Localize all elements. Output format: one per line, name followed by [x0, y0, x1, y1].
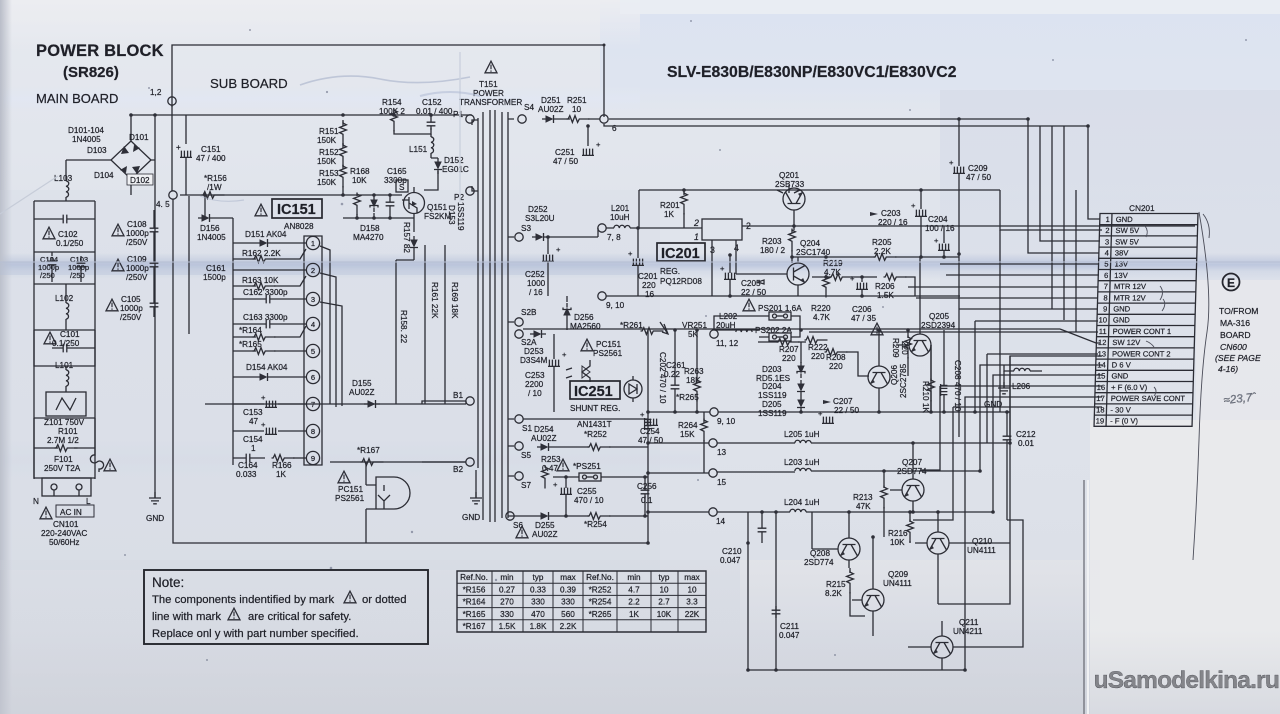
svg-text:+: + — [628, 249, 633, 258]
capacitor C164 — [233, 454, 265, 479]
svg-text:PC151: PC151 — [596, 340, 621, 349]
svg-text:1000: 1000 — [527, 279, 546, 288]
resistor R222 — [805, 337, 829, 361]
svg-text:/1W: /1W — [207, 183, 222, 192]
pin 17 POWER SAVE CONT — [1096, 394, 1185, 403]
resistor R208 — [825, 349, 870, 376]
svg-text:R213: R213 — [853, 493, 873, 502]
svg-text:PQ12RD08: PQ12RD08 — [660, 277, 702, 286]
svg-text:D254: D254 — [534, 425, 554, 434]
svg-text:150K: 150K — [317, 178, 337, 187]
svg-text:C252: C252 — [525, 270, 545, 279]
svg-text:C161: C161 — [206, 264, 226, 273]
svg-text:1SS119: 1SS119 — [758, 391, 787, 400]
label AC IN CN101 — [40, 505, 94, 547]
svg-text:47 / 50: 47 / 50 — [966, 173, 991, 182]
svg-text:D102: D102 — [130, 176, 150, 185]
diode D252 — [525, 205, 598, 241]
svg-text:C211: C211 — [780, 622, 799, 631]
svg-text:SW 12V: SW 12V — [1112, 338, 1141, 347]
svg-text:C105: C105 — [121, 295, 141, 304]
capacitor C165 — [384, 167, 407, 218]
svg-text:0.47: 0.47 — [542, 464, 558, 473]
svg-text:(SEE PAGE: (SEE PAGE — [1215, 353, 1261, 363]
svg-text:POWER CONT 2: POWER CONT 2 — [1112, 349, 1171, 358]
svg-text:The components indentified by: The components indentified by mark — [152, 594, 334, 606]
pen mark row2 — [1145, 226, 1147, 237]
svg-text:N: N — [33, 497, 39, 506]
svg-text:L201: L201 — [611, 204, 630, 213]
svg-text:13: 13 — [717, 448, 727, 457]
capacitor C154 — [233, 420, 306, 453]
svg-text:C212: C212 — [1016, 430, 1036, 439]
wire rail 6b — [604, 124, 1088, 126]
inductor L101 — [55, 361, 74, 392]
node 6 — [600, 115, 608, 123]
wire bottom rail primary — [173, 199, 648, 543]
inductor L201 — [598, 204, 702, 237]
svg-text:D255: D255 — [535, 521, 555, 530]
svg-text:GND: GND — [462, 513, 480, 522]
svg-text:0.27: 0.27 — [499, 585, 515, 594]
svg-text:0.39: 0.39 — [560, 585, 576, 594]
svg-text:/250V: /250V — [126, 273, 148, 282]
svg-text:typ: typ — [533, 573, 544, 582]
zener D158 — [353, 195, 384, 242]
pin 9 GND — [1103, 305, 1131, 314]
pin 9 — [306, 451, 319, 464]
svg-text:50/60Hz: 50/60Hz — [49, 538, 80, 547]
svg-text:1.5K: 1.5K — [499, 622, 516, 631]
svg-text:(SR826): (SR826) — [63, 64, 119, 81]
svg-text:typ: typ — [659, 573, 670, 582]
label D102 — [127, 174, 153, 185]
svg-text:max: max — [684, 573, 699, 582]
node 4,5 — [169, 191, 177, 199]
ground L206 — [984, 371, 1010, 409]
pin 6 13V — [1104, 271, 1129, 280]
svg-text:C204: C204 — [928, 215, 948, 224]
svg-text:D158: D158 — [360, 224, 380, 233]
IC201 label — [657, 243, 705, 286]
svg-text:11: 11 — [1099, 327, 1107, 336]
svg-text:C209: C209 — [968, 164, 988, 173]
resistor R165 — [233, 340, 306, 354]
capacitor C261 — [664, 330, 686, 412]
wire R158 column — [396, 260, 414, 404]
svg-text:R207: R207 — [779, 345, 799, 354]
svg-text:Q210: Q210 — [972, 537, 992, 546]
svg-text:1N4005: 1N4005 — [72, 135, 101, 144]
resistor R216 — [888, 512, 913, 547]
svg-text:0.33: 0.33 — [530, 585, 546, 594]
wire IC151 input box — [189, 196, 233, 465]
crease diagonal top left — [0, 176, 58, 214]
resistor R206 — [875, 274, 915, 300]
svg-text:+: + — [553, 480, 558, 489]
svg-text:C151: C151 — [201, 145, 221, 154]
wire Q210 outputs — [938, 356, 1010, 604]
svg-text:330: 330 — [561, 598, 575, 607]
svg-text:AC IN: AC IN — [60, 508, 82, 517]
svg-text:POWER BLOCK: POWER BLOCK — [36, 42, 164, 60]
svg-text:1000p: 1000p — [126, 229, 149, 238]
svg-text:0.01 / 400: 0.01 / 400 — [416, 107, 453, 116]
capacitor C109 — [112, 246, 158, 295]
svg-text:SW 5V: SW 5V — [1115, 237, 1140, 246]
wire rail 6 to right — [609, 118, 1028, 120]
svg-text:1: 1 — [1105, 215, 1109, 224]
svg-text:GND: GND — [1116, 215, 1134, 224]
capacitor C151 — [176, 115, 226, 195]
svg-text:4.7K: 4.7K — [813, 313, 830, 322]
terminal P1 — [466, 115, 474, 123]
svg-text:1,2: 1,2 — [150, 88, 162, 97]
svg-text:C109: C109 — [127, 255, 147, 264]
svg-text:13V: 13V — [1114, 260, 1129, 269]
svg-text:D151 AK04: D151 AK04 — [245, 230, 287, 239]
svg-text:/250: /250 — [40, 271, 55, 280]
svg-text:MA4270: MA4270 — [353, 233, 384, 242]
resistor R264 — [678, 412, 707, 473]
terminal S3 — [515, 233, 523, 241]
capacitor C202 — [645, 352, 667, 430]
terminal S7 — [515, 472, 523, 480]
svg-text:*R252: *R252 — [584, 430, 607, 439]
label D153 1SS119 — [410, 202, 465, 260]
wire row13 feed — [987, 354, 1098, 443]
svg-text:R168: R168 — [350, 167, 370, 176]
pin 8 MTR 12V — [1103, 293, 1146, 302]
capacitor C101 — [34, 330, 95, 366]
svg-text:C154: C154 — [243, 435, 263, 444]
capacitor C204 — [925, 215, 955, 257]
svg-text:/250V: /250V — [120, 313, 142, 322]
svg-text:4. 5: 4. 5 — [156, 200, 170, 209]
capacitor C161 — [203, 264, 226, 282]
svg-text:20uH: 20uH — [716, 321, 736, 330]
wire reg output — [742, 225, 1195, 227]
transistor Q208 — [804, 512, 860, 568]
node 1,2 — [168, 97, 176, 105]
svg-text:470: 470 — [531, 610, 545, 619]
resistor R207 — [758, 339, 806, 363]
capacitor C105 — [106, 295, 158, 322]
svg-text:S7: S7 — [521, 481, 531, 490]
svg-text:C254: C254 — [640, 427, 660, 436]
svg-text:11, 12: 11, 12 — [716, 339, 739, 348]
svg-text:AN8028: AN8028 — [284, 222, 314, 231]
svg-text:0.1/250: 0.1/250 — [56, 239, 84, 248]
transistor Q207 — [890, 443, 927, 512]
wire bundle v1 — [1051, 126, 1053, 309]
svg-text:C205: C205 — [741, 279, 761, 288]
pin 11 POWER CONT 1 — [1099, 327, 1172, 336]
crease fold bottom right — [1083, 480, 1085, 714]
svg-text:10K: 10K — [890, 538, 905, 547]
svg-text:C255: C255 — [577, 487, 597, 496]
svg-text:IC251: IC251 — [574, 384, 613, 400]
svg-text:AU02Z: AU02Z — [538, 105, 563, 114]
svg-text:D253: D253 — [524, 347, 544, 356]
diode D253 — [520, 330, 547, 365]
pin 16 + F (6.0 V) — [1097, 383, 1148, 392]
zener D256 — [563, 296, 601, 331]
svg-text:0.1/250: 0.1/250 — [52, 339, 80, 348]
svg-text:9: 9 — [1103, 305, 1107, 314]
svg-text:220-240VAC: 220-240VAC — [41, 529, 87, 538]
svg-text:- 30 V: - 30 V — [1110, 405, 1131, 414]
svg-text:R201: R201 — [660, 201, 680, 210]
optocoupler PC151 diode side — [566, 339, 623, 382]
svg-text:R215: R215 — [826, 580, 846, 589]
svg-text:0.1: 0.1 — [641, 496, 653, 505]
svg-text:0.047: 0.047 — [779, 631, 800, 640]
wire row6 feed — [946, 274, 1099, 276]
svg-text:*PS251: *PS251 — [573, 462, 601, 471]
svg-text:17: 17 — [1096, 394, 1105, 403]
wire row7 feed — [908, 286, 1098, 288]
resistor R201 — [660, 190, 687, 228]
pin 2 — [306, 263, 319, 276]
svg-text:D203: D203 — [762, 365, 782, 374]
svg-text:2: 2 — [1105, 226, 1109, 235]
svg-text:C207: C207 — [833, 397, 853, 406]
svg-text:4-16): 4-16) — [1218, 364, 1238, 374]
pin 4 — [306, 317, 319, 330]
svg-text:SLV-E830B/E830NP/E830VC1/E830V: SLV-E830B/E830NP/E830VC1/E830VC2 — [667, 64, 957, 81]
svg-text:6: 6 — [311, 373, 315, 382]
pin 2 SW 5V — [1105, 226, 1140, 235]
svg-text:*R261: *R261 — [620, 321, 643, 330]
label E circle — [1223, 274, 1240, 291]
wire filter ladder frame — [34, 201, 95, 479]
svg-text:GND: GND — [1113, 305, 1131, 314]
svg-text:POWER: POWER — [473, 89, 504, 98]
fold curve short — [1203, 214, 1209, 238]
wire sub rail down — [204, 195, 206, 218]
svg-text:S2B: S2B — [521, 308, 537, 317]
svg-text:CN101: CN101 — [53, 520, 79, 529]
svg-text:D 6 V: D 6 V — [1112, 361, 1132, 370]
wire row11 feed — [809, 331, 1098, 333]
svg-text:1: 1 — [251, 444, 256, 453]
capacitor C211 — [772, 606, 800, 640]
optocoupler PC151 phot — [335, 462, 410, 543]
terminal S6 — [506, 512, 514, 520]
wire D155 row — [205, 403, 466, 405]
svg-text:13V: 13V — [1114, 271, 1129, 280]
wire S1 row — [523, 418, 648, 420]
svg-text:B2: B2 — [453, 465, 463, 474]
svg-text:POWER CONT 1: POWER CONT 1 — [1113, 327, 1172, 336]
capacitor C103 — [34, 255, 95, 284]
resistor R210 — [921, 345, 934, 413]
svg-text:38V: 38V — [1115, 249, 1130, 258]
svg-text:TRANSFORMER: TRANSFORMER — [459, 98, 522, 107]
svg-text:1K: 1K — [629, 610, 640, 619]
resistor R166 — [272, 455, 307, 479]
svg-text:180 / 2: 180 / 2 — [760, 246, 785, 255]
wire bottom rail — [748, 669, 965, 671]
wire right bundle box — [993, 375, 1102, 512]
svg-text:D154 AK04: D154 AK04 — [246, 363, 288, 372]
svg-text:2: 2 — [693, 218, 699, 228]
wire vertical x748 — [747, 512, 749, 670]
svg-text:SUB BOARD: SUB BOARD — [210, 76, 288, 91]
svg-text:4: 4 — [311, 320, 315, 329]
pencil smudge 2 — [200, 196, 244, 201]
svg-text:P2: P2 — [454, 193, 464, 202]
svg-text:R206: R206 — [875, 282, 895, 291]
svg-text:SW 5V: SW 5V — [1115, 226, 1140, 235]
svg-text:6: 6 — [1104, 271, 1108, 280]
svg-text:0.01: 0.01 — [1018, 439, 1034, 448]
node 14 — [709, 508, 717, 516]
svg-text:R210 1K: R210 1K — [921, 381, 930, 413]
diode D156 — [197, 214, 233, 242]
svg-text:line with mark: line with mark — [152, 611, 221, 623]
svg-text:Q209: Q209 — [888, 570, 908, 579]
svg-text:Q151: Q151 — [427, 203, 447, 212]
svg-text:12: 12 — [1098, 338, 1107, 347]
wire pin2 row — [233, 269, 306, 271]
svg-text:/250: /250 — [70, 271, 85, 280]
svg-text:C251: C251 — [555, 148, 575, 157]
svg-text:+: + — [562, 350, 567, 359]
resistor R261 — [620, 321, 664, 334]
pen mark row7 — [1160, 286, 1163, 300]
svg-text:SHUNT REG.: SHUNT REG. — [570, 404, 620, 413]
svg-text:AU02Z: AU02Z — [531, 434, 556, 443]
svg-text:L151: L151 — [409, 145, 428, 154]
svg-text:D156: D156 — [200, 224, 220, 233]
svg-text:10K: 10K — [657, 610, 672, 619]
svg-text:R101: R101 — [58, 427, 78, 436]
transistor Q204 — [736, 239, 831, 296]
svg-text:0.22: 0.22 — [664, 370, 680, 379]
svg-text:2SD774: 2SD774 — [897, 467, 927, 476]
svg-text:3.3: 3.3 — [686, 598, 698, 607]
svg-text:1000p: 1000p — [126, 264, 149, 273]
svg-text:*R156: *R156 — [463, 585, 486, 594]
node 9,10 — [598, 292, 606, 300]
wire L205 to row14 — [1010, 356, 1102, 443]
svg-text:R157 82: R157 82 — [402, 222, 411, 253]
node 15 — [709, 469, 717, 477]
wire Q201 top rail — [639, 190, 1102, 230]
note box — [144, 570, 428, 644]
svg-text:L203 1uH: L203 1uH — [784, 458, 820, 467]
pen mark row8 — [1162, 299, 1165, 311]
svg-text:/ 10: / 10 — [528, 389, 542, 398]
resistor R153 — [317, 165, 346, 196]
svg-text:1: 1 — [311, 239, 315, 248]
wire sub-board top box — [172, 45, 604, 117]
wire row8 feed — [916, 297, 1098, 299]
svg-text:47 / 50: 47 / 50 — [553, 157, 578, 166]
wire bundle v2 — [1063, 126, 1065, 320]
wire row10 feed — [975, 321, 1098, 412]
svg-text:C206: C206 — [852, 305, 872, 314]
svg-text:REG.: REG. — [660, 267, 680, 276]
svg-text:47K: 47K — [856, 502, 871, 511]
svg-text:R209: R209 — [891, 338, 900, 358]
svg-text:R253: R253 — [541, 455, 561, 464]
pencil smudge near sub board — [300, 76, 470, 85]
svg-text:min: min — [500, 573, 514, 582]
svg-text:10: 10 — [1098, 316, 1107, 325]
wire R167 row — [330, 461, 466, 463]
svg-text:IC201: IC201 — [661, 246, 700, 262]
svg-text:15K: 15K — [680, 430, 695, 439]
svg-text:220: 220 — [782, 354, 796, 363]
svg-text:Q206: Q206 — [890, 365, 899, 385]
wire Q151 drain row — [343, 218, 414, 232]
svg-text:+: + — [850, 274, 855, 283]
svg-text:C203: C203 — [881, 209, 901, 218]
pin 10 GND — [1098, 316, 1130, 325]
svg-text:150K: 150K — [317, 157, 337, 166]
terminal S5 — [515, 442, 523, 450]
inductor L103 — [54, 160, 73, 201]
svg-text:MA2560: MA2560 — [570, 322, 601, 331]
svg-text:TO/FROM: TO/FROM — [1219, 306, 1258, 316]
diode D154 — [233, 363, 306, 381]
svg-text:14: 14 — [1097, 361, 1106, 370]
svg-text:220 / 16: 220 / 16 — [878, 218, 908, 227]
svg-text:C164: C164 — [238, 461, 258, 470]
svg-text:2SC2785: 2SC2785 — [899, 363, 908, 398]
svg-text:2.2K: 2.2K — [560, 622, 577, 631]
svg-text:22K: 22K — [685, 610, 700, 619]
wire B1 stub — [422, 401, 466, 462]
note triangle 2 — [228, 608, 240, 620]
capacitor C210 — [720, 512, 766, 565]
fuse F101 — [34, 448, 116, 478]
svg-text:560: 560 — [561, 610, 575, 619]
svg-text:UN4111: UN4111 — [883, 579, 912, 588]
diode D254 — [531, 425, 556, 451]
svg-text:10: 10 — [572, 105, 582, 114]
resistor R252 — [553, 430, 648, 450]
transistor Q206 — [868, 330, 908, 412]
svg-text:R169 18K: R169 18K — [450, 282, 459, 319]
svg-text:2.7: 2.7 — [658, 598, 670, 607]
svg-text:L205 1uH: L205 1uH — [784, 430, 820, 439]
svg-text:AN1431T: AN1431T — [577, 420, 612, 429]
terminal B2 — [466, 458, 474, 466]
pin 13 POWER CONT 2 — [1097, 349, 1170, 358]
svg-text:1.5K: 1.5K — [877, 291, 894, 300]
svg-text:220: 220 — [829, 362, 843, 371]
capacitor C201 — [628, 228, 658, 299]
resistor R152 — [317, 120, 346, 169]
svg-text:1K: 1K — [664, 210, 675, 219]
svg-text:C165: C165 — [387, 167, 407, 176]
svg-text:10uH: 10uH — [610, 213, 630, 222]
inductor L206 — [1004, 365, 1042, 391]
svg-text:R263: R263 — [684, 367, 704, 376]
capacitor C252 — [525, 237, 561, 297]
diode D152 — [424, 156, 469, 190]
svg-text:+: + — [176, 143, 181, 152]
svg-text:C153: C153 — [243, 408, 263, 417]
pin 3 SW 5V — [1105, 237, 1140, 246]
capacitor C205 — [720, 255, 766, 297]
svg-text:0.047: 0.047 — [720, 556, 741, 565]
svg-text:8.2K: 8.2K — [825, 589, 842, 598]
